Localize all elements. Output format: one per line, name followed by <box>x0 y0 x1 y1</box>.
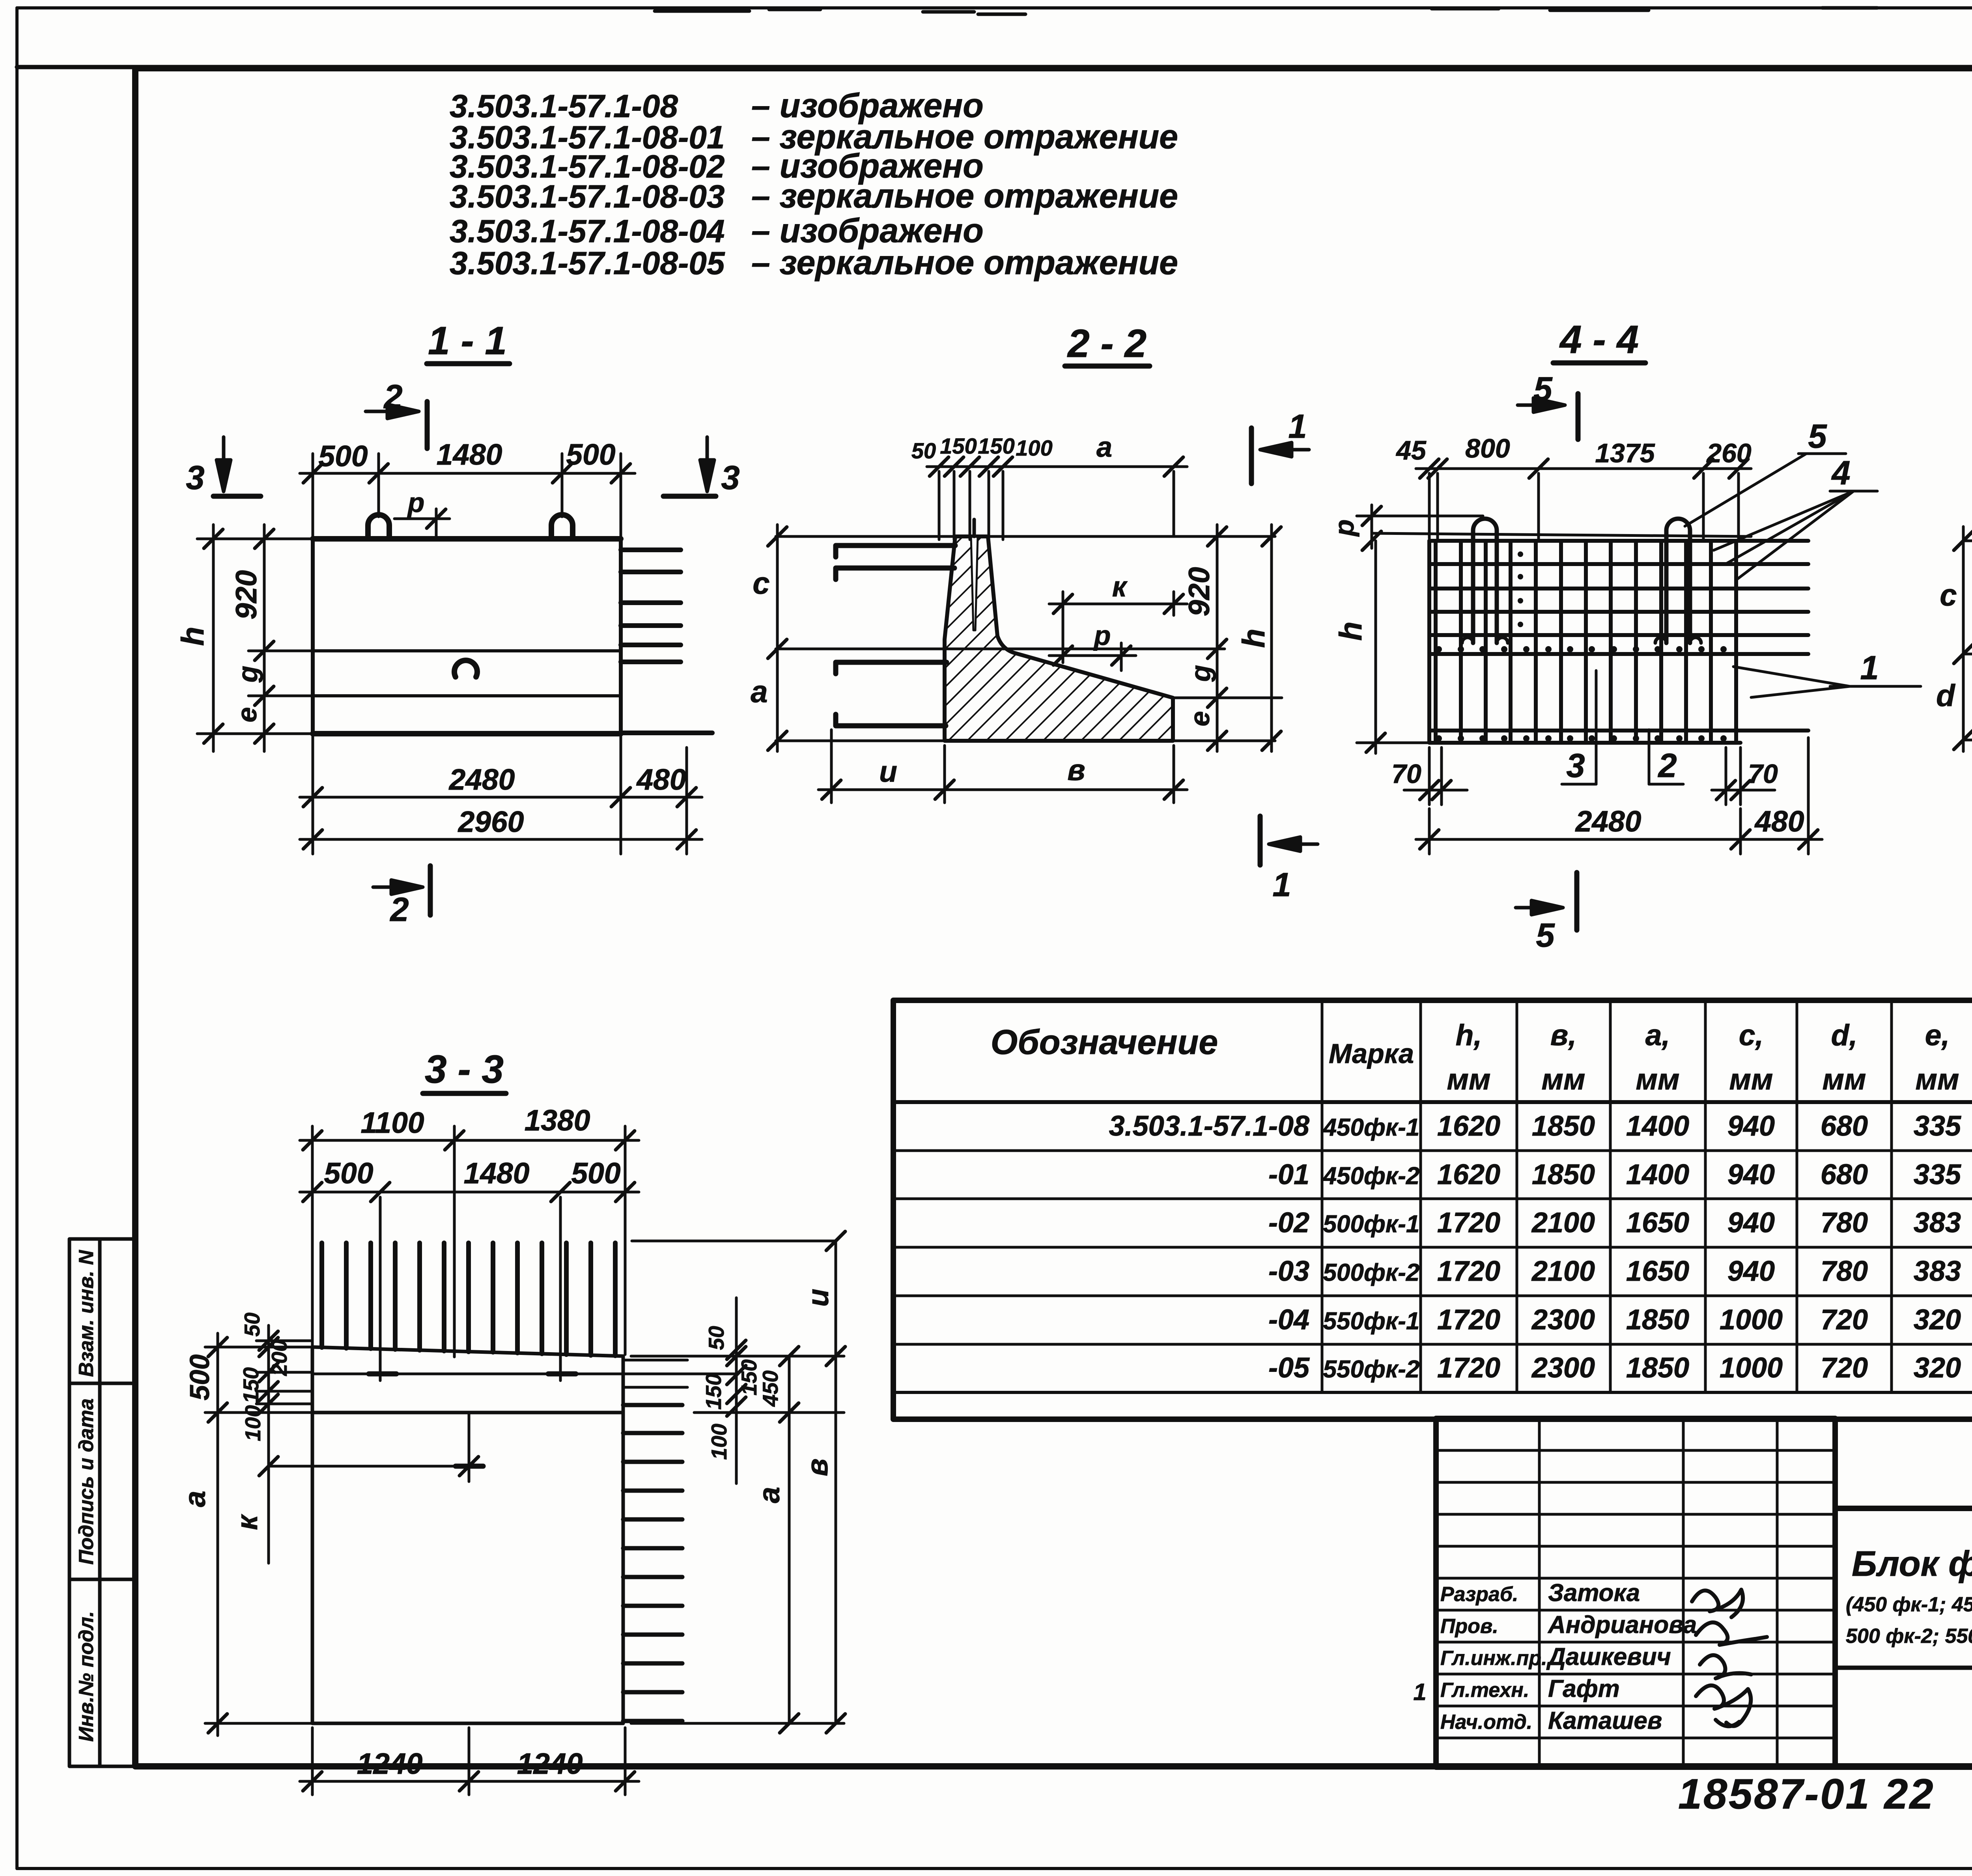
svg-text:Каташев: Каташев <box>1548 1707 1662 1734</box>
table data <box>1109 1110 1972 1384</box>
svg-text:1100: 1100 <box>360 1106 424 1139</box>
svg-text:Блок фундамента: Блок фундамента <box>1852 1544 1972 1584</box>
svg-text:c: c <box>1940 577 1957 612</box>
svg-text:780: 780 <box>1821 1256 1868 1287</box>
dim 45 800 1375 260 top of 4-4 <box>1416 469 1751 538</box>
svg-text:Затока: Затока <box>1548 1579 1640 1607</box>
svg-text:– зеркальное отражение: – зеркальное отражение <box>751 244 1178 282</box>
svg-text:1650: 1650 <box>1626 1207 1689 1239</box>
svg-text:Взам. инв. N: Взам. инв. N <box>75 1250 98 1377</box>
svg-text:и: и <box>879 755 897 788</box>
rebar slot in stem <box>971 536 978 630</box>
svg-text:18587-01 22: 18587-01 22 <box>1678 1770 1935 1818</box>
svg-text:450фк-1: 450фк-1 <box>1322 1114 1420 1141</box>
svg-text:1375: 1375 <box>1595 438 1655 468</box>
bar dots 4-4 <box>1436 551 1727 742</box>
svg-text:-05: -05 <box>1268 1352 1310 1384</box>
svg-text:450фк-2: 450фк-2 <box>1322 1162 1420 1190</box>
svg-text:940: 940 <box>1727 1207 1775 1239</box>
svg-text:h: h <box>1236 629 1271 648</box>
svg-text:и: и <box>801 1289 835 1307</box>
svg-text:е,: е, <box>1925 1018 1950 1052</box>
svg-text:d: d <box>1936 678 1955 713</box>
cut marker 1 bottom right of 2-2 <box>1260 816 1318 865</box>
svg-text:4: 4 <box>1831 454 1850 492</box>
svg-text:2: 2 <box>383 378 402 416</box>
svg-text:мм: мм <box>1636 1063 1680 1096</box>
svg-text:150: 150 <box>940 433 977 458</box>
svg-text:550фк-1: 550фк-1 <box>1323 1308 1420 1335</box>
lifting loop left <box>368 515 389 539</box>
svg-text:480: 480 <box>1754 805 1804 838</box>
top margin band <box>17 65 1972 69</box>
svg-text:к: к <box>1112 571 1128 603</box>
svg-text:-01: -01 <box>1268 1159 1309 1190</box>
scan smudges top edge <box>655 8 1972 14</box>
cut marker 5 top of 4-4 <box>1518 394 1578 439</box>
dim 1100 1380 top of 3-3 <box>300 1126 639 1357</box>
svg-text:р: р <box>1093 620 1111 651</box>
dim 70 bottom-right 4-4 <box>1712 747 1775 805</box>
svg-text:2300: 2300 <box>1531 1304 1595 1336</box>
svg-text:а,: а, <box>1645 1018 1670 1052</box>
right stubs 3-3 <box>623 1360 687 1387</box>
svg-text:мм: мм <box>1729 1063 1773 1096</box>
svg-text:1240: 1240 <box>357 1747 423 1780</box>
cut marker 1 top right of 2-2 <box>1251 428 1309 484</box>
left dims 3-3 <box>205 1325 312 1736</box>
svg-text:1650: 1650 <box>1626 1256 1689 1287</box>
svg-text:150: 150 <box>978 433 1014 458</box>
svg-text:550фк-2: 550фк-2 <box>1323 1356 1420 1383</box>
right dims 3-3 <box>631 1241 844 1723</box>
dim 1240 1240 bottom 3-3 <box>300 1728 639 1795</box>
dim 500 1480 500 of 3-3 <box>300 1192 639 1381</box>
svg-text:50: 50 <box>240 1312 264 1337</box>
svg-text:1: 1 <box>1272 866 1291 904</box>
svg-text:100: 100 <box>707 1424 731 1460</box>
svg-text:-03: -03 <box>1268 1256 1309 1287</box>
svg-text:500фк-1: 500фк-1 <box>1323 1211 1420 1238</box>
svg-text:h,: h, <box>1456 1018 1482 1052</box>
svg-text:150: 150 <box>701 1373 726 1410</box>
dim p at loop <box>394 509 450 539</box>
svg-text:a: a <box>751 674 768 709</box>
svg-text:с,: с, <box>1739 1018 1764 1052</box>
svg-text:в,: в, <box>1550 1018 1576 1052</box>
svg-text:2: 2 <box>1657 747 1677 785</box>
svg-text:940: 940 <box>1727 1159 1775 1190</box>
dim h left of 4-4 <box>1374 541 1377 753</box>
dim 2480 480 bottom 4-4 <box>1416 738 1822 854</box>
anchor mark <box>454 660 477 677</box>
svg-text:780: 780 <box>1821 1207 1868 1239</box>
designation notes <box>450 87 1178 282</box>
dim chain 50 150 150 100 a top of 2-2 <box>927 467 1187 540</box>
svg-text:500: 500 <box>184 1355 215 1401</box>
svg-text:1620: 1620 <box>1437 1159 1500 1190</box>
dim k 3-3 <box>269 1465 469 1468</box>
callout 1 of 4-4 <box>1733 667 1921 697</box>
svg-text:e: e <box>1184 711 1215 727</box>
top plane line 4-4 <box>1372 533 1751 536</box>
svg-text:150: 150 <box>239 1367 263 1403</box>
svg-text:1000: 1000 <box>1720 1352 1783 1384</box>
callout 5 of 4-4 <box>1685 454 1806 526</box>
svg-text:a: a <box>753 1487 786 1503</box>
svg-text:1000: 1000 <box>1720 1304 1783 1336</box>
svg-text:450: 450 <box>758 1370 782 1407</box>
svg-text:a: a <box>1096 432 1112 463</box>
svg-text:383: 383 <box>1914 1256 1961 1287</box>
dims 920 g e h right of 2-2 <box>1173 525 1282 751</box>
svg-text:70: 70 <box>1391 759 1421 789</box>
svg-text:р: р <box>1329 519 1359 537</box>
svg-text:e: e <box>232 707 262 723</box>
dim p 2-2 <box>1049 654 1136 657</box>
svg-text:Гл.техн.: Гл.техн. <box>1440 1679 1529 1702</box>
svg-text:1240: 1240 <box>517 1747 583 1780</box>
svg-text:680: 680 <box>1821 1110 1868 1142</box>
svg-text:2100: 2100 <box>1531 1207 1595 1239</box>
callout 2 of 4-4 <box>1648 730 1651 784</box>
svg-text:h: h <box>175 627 210 646</box>
svg-text:383: 383 <box>1914 1207 1961 1239</box>
svg-text:-02: -02 <box>1268 1207 1309 1239</box>
svg-text:480: 480 <box>636 763 686 796</box>
svg-text:3 - 3: 3 - 3 <box>425 1047 504 1091</box>
svg-text:к: к <box>230 1514 263 1530</box>
svg-text:– зеркальное отражение: – зеркальное отражение <box>751 177 1178 215</box>
dims 920 g e h left of 1-1 <box>197 525 313 751</box>
svg-text:1720: 1720 <box>1437 1207 1500 1239</box>
svg-text:1620: 1620 <box>1437 1110 1500 1142</box>
svg-text:1850: 1850 <box>1626 1304 1689 1336</box>
svg-text:2960: 2960 <box>458 805 524 838</box>
svg-text:Гафт: Гафт <box>1548 1675 1620 1702</box>
cut marker 2 top <box>366 402 427 448</box>
callout 4 of 4-4 <box>1714 491 1877 579</box>
svg-text:d,: d, <box>1831 1018 1858 1052</box>
dims u v bottom of 2-2 <box>818 730 1187 803</box>
rebar stubs right 1-1 <box>621 550 712 733</box>
svg-text:3.503.1-57.1-08: 3.503.1-57.1-08 <box>1109 1110 1309 1142</box>
svg-text:100: 100 <box>1016 435 1052 460</box>
svg-text:(450 фк-1; 450 фк-2; 500фк-1;: (450 фк-1; 450 фк-2; 500фк-1; <box>1846 1593 1972 1616</box>
svg-text:335: 335 <box>1914 1110 1961 1142</box>
svg-text:1480: 1480 <box>437 438 502 471</box>
dims 2480 480 2960 bottom of 1-1 <box>300 734 702 854</box>
svg-text:1480: 1480 <box>464 1157 530 1190</box>
svg-text:мм: мм <box>1916 1063 1959 1096</box>
dim p left of 4-4 <box>1357 505 1483 548</box>
svg-text:1720: 1720 <box>1437 1352 1500 1384</box>
svg-text:1: 1 <box>1288 408 1307 445</box>
svg-text:Нач.отд.: Нач.отд. <box>1440 1711 1532 1734</box>
svg-text:500 фк-2; 550 фк-1 и 550 фк-2): 500 фк-2; 550 фк-1 и 550 фк-2) <box>1846 1625 1972 1648</box>
svg-text:Марка: Марка <box>1329 1038 1414 1069</box>
svg-text:р: р <box>407 487 425 518</box>
svg-text:Подпись и дата: Подпись и дата <box>75 1398 98 1565</box>
rebar hooks left 2-2 <box>836 546 955 726</box>
svg-text:1850: 1850 <box>1532 1110 1595 1142</box>
svg-text:5: 5 <box>1808 418 1827 455</box>
cut marker 2 bottom <box>373 866 430 915</box>
svg-text:Гл.инж.пр.: Гл.инж.пр. <box>1440 1647 1547 1670</box>
svg-text:500: 500 <box>571 1157 620 1190</box>
svg-text:в: в <box>801 1458 834 1476</box>
svg-text:мм: мм <box>1542 1063 1585 1096</box>
svg-text:1850: 1850 <box>1532 1159 1595 1190</box>
title block signatures grid <box>1436 1418 1835 1767</box>
svg-text:720: 720 <box>1821 1304 1868 1336</box>
svg-text:150: 150 <box>737 1359 761 1396</box>
svg-text:500: 500 <box>566 438 615 471</box>
svg-text:70: 70 <box>1748 759 1778 789</box>
svg-text:500: 500 <box>318 439 368 473</box>
wall cross-section hatched 2-2 <box>945 536 1173 741</box>
svg-text:3.503.1-57.1-08-04: 3.503.1-57.1-08-04 <box>450 213 725 249</box>
reference lines 2-2 <box>776 536 1275 741</box>
anchor cross marks 3-3 <box>369 1374 576 1466</box>
svg-text:1: 1 <box>1413 1679 1426 1705</box>
svg-text:1 - 1: 1 - 1 <box>428 319 507 363</box>
svg-text:3: 3 <box>186 459 204 497</box>
hairpin loop left 4-4 <box>1473 519 1497 643</box>
svg-text:1400: 1400 <box>1626 1110 1689 1142</box>
svg-text:a: a <box>178 1491 211 1507</box>
svg-text:320: 320 <box>1914 1352 1961 1384</box>
svg-text:мм: мм <box>1823 1063 1866 1096</box>
svg-text:Дашкевич: Дашкевич <box>1546 1643 1671 1670</box>
plan outline 3-3 <box>312 1347 623 1723</box>
svg-text:в: в <box>1067 753 1085 787</box>
cut marker 5 bottom of 4-4 <box>1516 873 1577 930</box>
svg-text:920: 920 <box>230 570 263 619</box>
svg-text:1720: 1720 <box>1437 1304 1500 1336</box>
cut marker 3 right <box>663 437 716 496</box>
svg-text:2 - 2: 2 - 2 <box>1067 321 1147 366</box>
svg-text:100: 100 <box>241 1405 265 1441</box>
dimension table frame <box>893 1000 1972 1419</box>
svg-text:1380: 1380 <box>525 1104 590 1137</box>
comb of rebar ends 3-3 <box>322 1243 615 1356</box>
svg-text:940: 940 <box>1727 1110 1775 1142</box>
svg-text:720: 720 <box>1821 1352 1868 1384</box>
svg-text:1400: 1400 <box>1626 1159 1689 1190</box>
svg-text:1850: 1850 <box>1626 1352 1689 1384</box>
svg-text:c: c <box>753 566 769 600</box>
svg-text:500: 500 <box>324 1157 373 1190</box>
svg-text:680: 680 <box>1821 1159 1868 1190</box>
svg-text:2: 2 <box>389 891 409 929</box>
svg-text:Пров.: Пров. <box>1440 1615 1498 1638</box>
reference lines 5-5 <box>1963 541 1972 740</box>
svg-text:2300: 2300 <box>1531 1352 1595 1384</box>
lifting loop right <box>551 515 573 539</box>
svg-text:h: h <box>1333 622 1368 641</box>
title block main boxes <box>1835 1508 1972 1767</box>
svg-text:3.503.1-57.1-08: 3.503.1-57.1-08 <box>450 88 678 124</box>
svg-text:Андрианова: Андрианова <box>1547 1611 1697 1639</box>
svg-text:1720: 1720 <box>1437 1256 1500 1287</box>
dim 500 1480 500 top of 1-1 <box>300 454 635 536</box>
svg-text:мм: мм <box>1447 1063 1491 1096</box>
svg-text:Инв.№ подл.: Инв.№ подл. <box>75 1611 98 1741</box>
svg-text:4 - 4: 4 - 4 <box>1559 318 1639 362</box>
svg-text:2480: 2480 <box>1575 805 1641 838</box>
svg-text:5: 5 <box>1533 370 1553 408</box>
callout 3 of 4-4 <box>1595 671 1598 784</box>
svg-text:800: 800 <box>1465 433 1510 463</box>
dim 70 bottom-left 4-4 <box>1404 747 1467 805</box>
hairpin loop right 4-4 <box>1666 519 1690 643</box>
svg-text:260: 260 <box>1706 438 1752 468</box>
svg-text:Разраб.: Разраб. <box>1440 1583 1518 1606</box>
left margin stamp boxes <box>69 1239 135 1766</box>
joint lines inside block <box>313 649 621 652</box>
svg-text:5: 5 <box>1536 917 1555 954</box>
svg-text:1: 1 <box>1860 649 1879 687</box>
svg-text:3: 3 <box>721 459 739 497</box>
svg-text:940: 940 <box>1727 1256 1775 1287</box>
svg-text:-04: -04 <box>1268 1304 1309 1336</box>
svg-text:920: 920 <box>1182 567 1216 616</box>
svg-text:500фк-2: 500фк-2 <box>1323 1259 1420 1286</box>
svg-text:Обозначение: Обозначение <box>991 1022 1218 1061</box>
svg-text:335: 335 <box>1914 1159 1961 1190</box>
svg-text:g: g <box>232 666 263 683</box>
svg-text:320: 320 <box>1914 1304 1961 1336</box>
svg-text:2100: 2100 <box>1531 1256 1595 1287</box>
svg-text:2480: 2480 <box>448 763 515 796</box>
cut marker 3 left <box>213 437 261 496</box>
svg-text:45: 45 <box>1395 435 1427 465</box>
svg-text:200: 200 <box>267 1340 291 1376</box>
svg-text:3.503.1-57.1-08-03: 3.503.1-57.1-08-03 <box>450 179 725 215</box>
rebar mesh 4-4 <box>1429 541 1808 743</box>
signatures scribbles <box>1692 1590 1767 1726</box>
svg-text:3: 3 <box>1566 747 1585 785</box>
svg-text:g: g <box>1185 665 1216 682</box>
block body 1-1 <box>313 539 621 734</box>
dims c d left of 5-5 <box>1962 527 1965 751</box>
svg-text:50: 50 <box>704 1326 728 1350</box>
dims c a left of 2-2 <box>776 525 779 751</box>
svg-text:3.503.1-57.1-08-05: 3.503.1-57.1-08-05 <box>450 245 725 281</box>
table header <box>991 1013 1972 1096</box>
dim k 2-2 <box>1049 592 1187 663</box>
svg-text:50: 50 <box>911 438 936 463</box>
